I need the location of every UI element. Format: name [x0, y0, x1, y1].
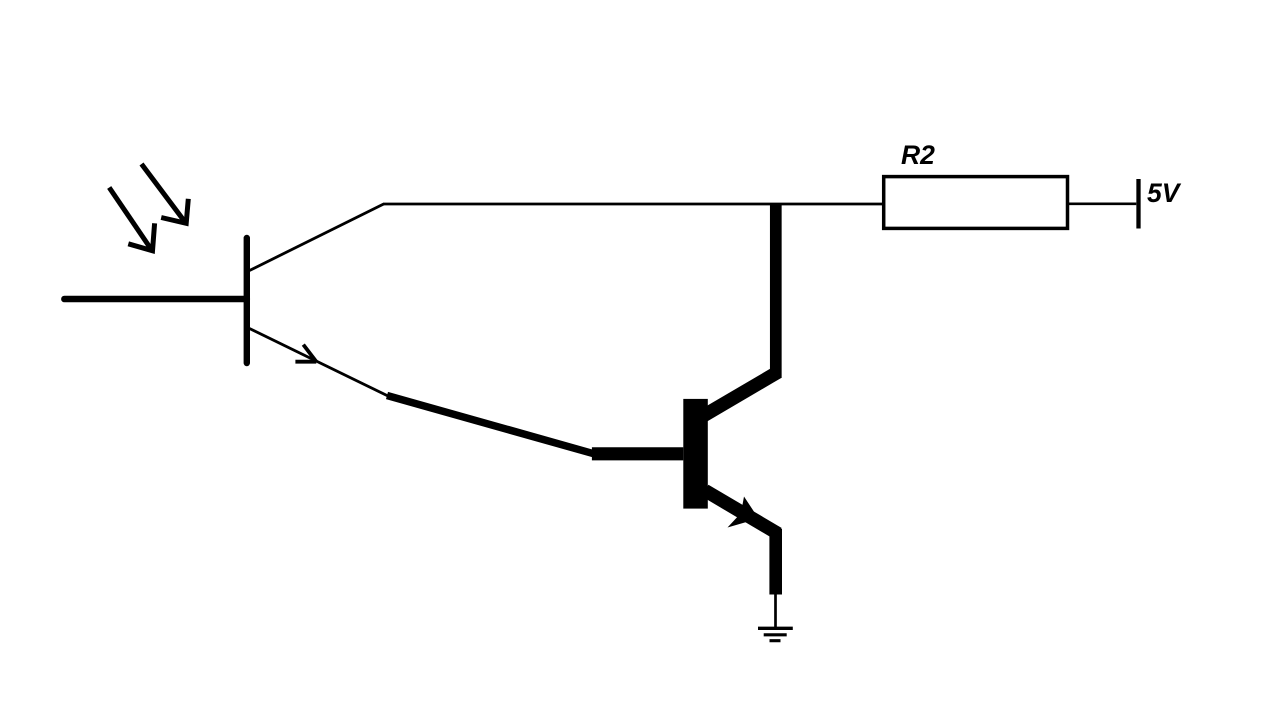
phototransistor Q1 bar: [244, 238, 250, 363]
light arrow 1: [109, 188, 154, 251]
transistor Q2 bar: [683, 399, 708, 509]
transistor Q2 collector diagonal: [703, 372, 778, 416]
phototransistor Q1 collector wire: [250, 204, 384, 271]
ground: [758, 628, 793, 640]
light arrow 2: [142, 164, 189, 223]
wire Q2 emitter vertical: [769, 529, 782, 595]
transistor Q2 base lead: [592, 447, 683, 460]
phototransistor Q1 emitter arrow: [295, 345, 316, 362]
wire Q2 collector vertical: [770, 203, 782, 378]
phototransistor Q1 emitter wire: [250, 329, 390, 397]
5V supply bar: [1136, 179, 1140, 229]
phototransistor Q1 base lead: [64, 296, 246, 303]
svg-text:R2: R2: [901, 140, 935, 170]
wire photo emitter to Q2 base (thick): [387, 396, 594, 454]
resistor R2: [884, 177, 1068, 229]
transistor Q2 emitter arrowhead: [728, 497, 759, 528]
svg-text:5V: 5V: [1147, 178, 1182, 208]
transistor Q2 emitter diagonal: [705, 491, 778, 534]
wire resistor to 5V: [1068, 202, 1137, 205]
wire top rail: [383, 203, 884, 206]
wire emitter to ground: [774, 595, 777, 629]
